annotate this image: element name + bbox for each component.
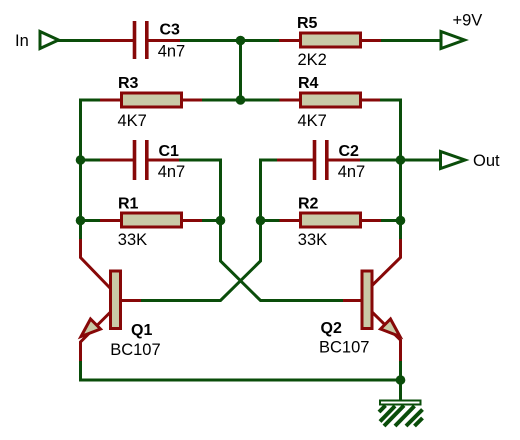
transistor Q1 [81, 239, 142, 361]
wire node top to R5 [241, 39, 281, 42]
svg-text:4n7: 4n7 [158, 43, 186, 61]
svg-text:R5: R5 [297, 15, 318, 32]
wire ground stem [399, 380, 402, 401]
resistor R3 [100, 93, 202, 107]
svg-text:C3: C3 [160, 22, 181, 39]
svg-text:R3: R3 [118, 75, 139, 92]
value 4n7 of C3 [158, 43, 186, 61]
node X2 junction [256, 216, 266, 226]
node mid junction [236, 95, 246, 105]
ground [379, 401, 423, 427]
value 4n7 of C2 [338, 163, 366, 181]
svg-text:C1: C1 [159, 143, 180, 160]
label Out [473, 152, 500, 170]
svg-text:4n7: 4n7 [158, 163, 186, 181]
label C1 [159, 143, 180, 160]
label In [15, 32, 29, 50]
node ground junction [396, 375, 406, 385]
svg-text:33K: 33K [298, 231, 327, 249]
wire C3 to node top [180, 39, 241, 42]
node junction R2 right [396, 216, 406, 226]
wire C2 to node B [360, 159, 401, 162]
wire In to C3 [57, 39, 101, 42]
wire left column from R3 corner down [81, 100, 102, 239]
svg-text:In: In [15, 32, 29, 50]
value 2K2 of R5 [298, 51, 327, 69]
label Q1 [131, 322, 152, 339]
wire R3 to node mid [202, 99, 241, 102]
node top junction [236, 36, 246, 46]
resistor R5 [279, 33, 382, 47]
node junction R1 left [76, 216, 86, 226]
wire node B to Out [401, 159, 442, 162]
wire R1 to node X1 [202, 219, 221, 222]
value 33K of R1 [118, 231, 147, 249]
wire node X2 to R2 [261, 219, 281, 222]
node B junction [396, 155, 406, 165]
svg-text:R2: R2 [298, 196, 319, 213]
value BC107 of Q2 [319, 339, 369, 357]
wire C1 right corner down to cross [179, 160, 343, 301]
wire Q2 emitter to ground node [399, 361, 402, 380]
resistor R2 [280, 213, 382, 227]
node A junction [76, 155, 86, 165]
svg-text:R1: R1 [118, 196, 139, 213]
label R4 [298, 75, 319, 92]
svg-text:4n7: 4n7 [338, 163, 366, 181]
capacitor C2 [277, 140, 361, 180]
svg-text:BC107: BC107 [110, 341, 160, 359]
transistor Q2 [343, 239, 401, 361]
svg-text:BC107: BC107 [319, 339, 369, 357]
wire R2 to right column [381, 219, 401, 222]
value 4n7 of C1 [158, 163, 186, 181]
label +9V [453, 12, 483, 30]
wire node mid to R4 [241, 99, 281, 102]
svg-text:Q1: Q1 [131, 322, 152, 339]
svg-text:Q2: Q2 [321, 320, 342, 337]
wire node top down to node mid [239, 41, 242, 101]
wire Q1 emitter to bottom rail [81, 361, 401, 380]
label R3 [118, 75, 139, 92]
output connector Out [441, 152, 466, 169]
label R5 [297, 15, 318, 32]
value 33K of R2 [298, 231, 327, 249]
svg-text:+9V: +9V [453, 12, 483, 30]
wire node A to R1 [81, 219, 102, 222]
svg-text:4K7: 4K7 [298, 112, 327, 130]
svg-text:Out: Out [473, 152, 500, 170]
svg-text:33K: 33K [118, 231, 147, 249]
value BC107 of Q1 [110, 341, 160, 359]
wire right column from R4 corner down [380, 100, 401, 239]
input connector In [40, 32, 59, 49]
wire R5 to +9V [381, 39, 441, 42]
node X1 junction [216, 216, 226, 226]
svg-text:C2: C2 [339, 143, 360, 160]
label C3 [160, 22, 181, 39]
power connector +9V [441, 32, 465, 49]
svg-text:R4: R4 [298, 75, 319, 92]
label Q2 [321, 320, 342, 337]
resistor R1 [100, 213, 202, 227]
wire node A to C1 [81, 159, 102, 162]
svg-text:4K7: 4K7 [118, 112, 147, 130]
value 4K7 of R3 [118, 112, 147, 130]
wire C2 left corner down to cross [141, 160, 278, 301]
label R1 [118, 196, 139, 213]
label R2 [298, 196, 319, 213]
label C2 [339, 143, 360, 160]
resistor R4 [280, 93, 382, 107]
value 4K7 of R4 [298, 112, 327, 130]
capacitor C3 [100, 21, 181, 59]
svg-text:2K2: 2K2 [298, 51, 327, 69]
capacitor C1 [100, 140, 180, 180]
